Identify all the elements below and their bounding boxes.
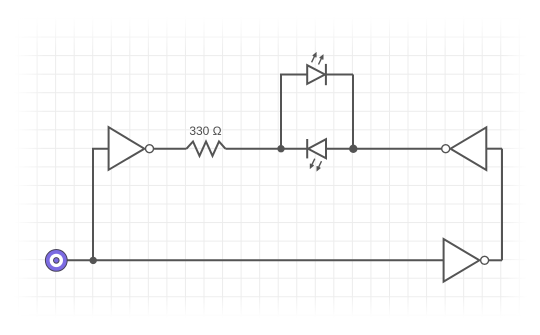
wire LED D2 anode to junction C bbox=[326, 148, 353, 150]
inverter U1 bbox=[109, 127, 154, 170]
svg-text:330 Ω: 330 Ω bbox=[189, 124, 221, 138]
wire U1 output to resistor R1 bbox=[154, 148, 187, 150]
LED D2 (inline, pointing left) bbox=[307, 139, 326, 170]
inverter U3 (pointing right) bbox=[444, 239, 489, 282]
junction B bbox=[277, 145, 284, 152]
wire left branch riser: junction B up to top branch bbox=[281, 75, 307, 149]
wire U3 output bubble to right vertical bbox=[489, 259, 502, 261]
wire right branch riser down to junction C bbox=[352, 75, 354, 149]
wire right vertical: U2 input down to U3 output bbox=[501, 149, 503, 261]
junction A bbox=[90, 257, 97, 264]
inverter U2 (pointing left) bbox=[442, 127, 487, 170]
wire R1 to junction B bbox=[225, 148, 281, 150]
wire input terminal J1 to junction A bbox=[66, 259, 93, 261]
junction C bbox=[349, 145, 357, 153]
wire top branch right to right riser bbox=[326, 74, 353, 76]
LED D1 (top branch, pointing right) bbox=[307, 53, 326, 85]
wire junction A up and to inverter U1 input bbox=[93, 149, 109, 261]
wire junction C to inverter U2 output bubble bbox=[353, 148, 442, 150]
resistor R1 bbox=[187, 142, 226, 156]
wire junction B to LED D2 cathode bbox=[281, 148, 307, 150]
input terminal J1 bbox=[45, 250, 67, 272]
wire U2 input to right vertical bbox=[486, 148, 502, 150]
wire bottom main: junction A to inverter U3 input bbox=[93, 259, 444, 261]
